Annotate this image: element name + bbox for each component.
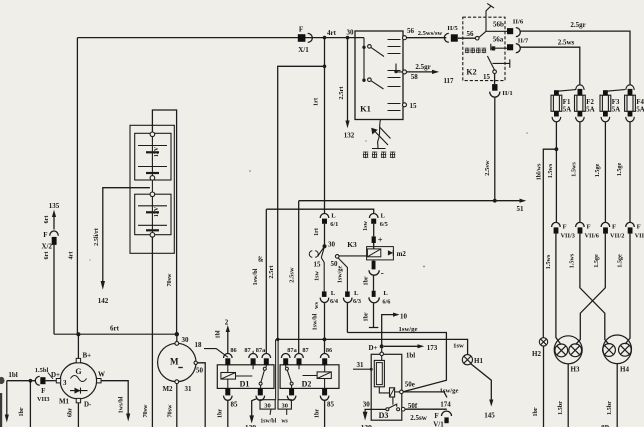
svg-text:D+: D+ <box>368 344 377 352</box>
K2 lower switch arm and 15 <box>487 56 494 70</box>
wire: 1rt drop to L6/1 <box>324 38 326 214</box>
svg-text:87a: 87a <box>287 347 297 354</box>
svg-text:51: 51 <box>517 205 525 213</box>
svg-text:2.5gr: 2.5gr <box>570 21 585 29</box>
connector L6/4 <box>321 258 324 292</box>
svg-text:2.5gr: 2.5gr <box>415 63 430 71</box>
svg-text:15: 15 <box>483 73 491 81</box>
svg-text:1bl/ws: 1bl/ws <box>535 163 542 180</box>
svg-text:W: W <box>98 371 105 379</box>
svg-text:2.5ws: 2.5ws <box>558 39 575 47</box>
generator D- output <box>76 398 80 402</box>
svg-text:X/1: X/1 <box>298 46 309 54</box>
D1 bottom connectors 85 30 <box>225 388 230 395</box>
svg-text:2.5sw: 2.5sw <box>289 267 296 283</box>
svg-text:B+: B+ <box>83 352 92 360</box>
svg-text:31: 31 <box>185 385 193 393</box>
lamp H3 (double) <box>554 336 582 364</box>
svg-text:1.5ws: 1.5ws <box>571 162 578 177</box>
svg-text:132: 132 <box>344 132 355 140</box>
K2 right plate symbol <box>493 59 510 67</box>
battery cell 1 <box>135 133 171 180</box>
svg-text:D3: D3 <box>379 411 389 420</box>
svg-text:L: L <box>381 213 386 220</box>
lamp H4 (double) <box>603 335 632 364</box>
svg-text:1ws/bl: 1ws/bl <box>118 396 125 413</box>
terminal 58 <box>403 70 407 74</box>
svg-text:D1: D1 <box>240 379 250 388</box>
svg-text:VII/6: VII/6 <box>585 233 599 240</box>
K2 dip arm 56 to 56b <box>479 17 507 37</box>
generator diode <box>70 388 88 394</box>
svg-text:5A: 5A <box>586 107 594 114</box>
fuse F3 <box>600 90 625 112</box>
D1 contact <box>253 365 266 388</box>
wire H1 to 145 arrow <box>470 363 491 400</box>
connector F VII/2 <box>601 222 610 227</box>
wire D+ vertical with 10 arrow <box>382 315 394 347</box>
svg-text:F: F <box>41 387 45 395</box>
svg-text:2.5ws/sw: 2.5ws/sw <box>418 30 443 37</box>
connector L6/3 <box>345 291 350 297</box>
D2 coil <box>324 365 326 388</box>
svg-text:70sw: 70sw <box>166 273 173 287</box>
svg-text:VII3: VII3 <box>37 396 50 403</box>
svg-text:70sw: 70sw <box>167 404 174 418</box>
svg-text:139: 139 <box>361 423 373 427</box>
wire 1sw/ge line A to D3 50e <box>347 303 446 392</box>
svg-text:87a: 87a <box>256 347 266 354</box>
svg-text:1sw: 1sw <box>453 343 464 350</box>
svg-text:6/1: 6/1 <box>330 221 338 228</box>
svg-text:V/1: V/1 <box>433 421 444 427</box>
svg-text:K2: K2 <box>466 68 476 77</box>
svg-text:12V: 12V <box>154 206 160 217</box>
svg-text:15: 15 <box>410 102 418 110</box>
svg-text:1.5ge: 1.5ge <box>594 163 601 177</box>
svg-text:F1: F1 <box>563 99 571 106</box>
svg-text:12V: 12V <box>154 146 160 157</box>
svg-text:F: F <box>43 231 47 239</box>
svg-text:F3: F3 <box>612 99 620 106</box>
svg-text:58: 58 <box>411 73 419 81</box>
svg-text:X/2: X/2 <box>42 243 53 251</box>
svg-text:1.5ge: 1.5ge <box>617 254 624 268</box>
svg-text:50e: 50e <box>405 381 415 389</box>
connector F VII/6 <box>576 222 585 227</box>
svg-text:M1: M1 <box>59 398 70 406</box>
svg-text:G: G <box>75 367 81 376</box>
svg-text:F: F <box>637 224 641 231</box>
svg-text:H1: H1 <box>474 357 483 365</box>
svg-text:6rt: 6rt <box>110 325 120 333</box>
relay D1 <box>217 365 274 389</box>
svg-text:1br: 1br <box>532 407 539 417</box>
wire: drop to 132 arrow <box>347 38 349 121</box>
wires down to relay 30 plugs <box>276 339 279 399</box>
svg-text:50: 50 <box>196 367 204 375</box>
svg-text:86: 86 <box>230 347 236 354</box>
svg-text:3: 3 <box>63 379 67 387</box>
battery minus cable down <box>151 237 153 427</box>
D1 30 output arrow 1sw/bl <box>252 399 257 416</box>
svg-text:ge: ge <box>257 256 264 262</box>
svg-text:1.5br: 1.5br <box>606 401 613 415</box>
svg-text:10: 10 <box>400 312 408 320</box>
D3 50e output arrow 174 <box>403 392 447 398</box>
D2 bottom connectors 30 85 <box>289 388 294 395</box>
svg-text:M2: M2 <box>162 385 173 393</box>
svg-text:174: 174 <box>440 401 451 409</box>
svg-text:30: 30 <box>264 402 271 409</box>
svg-text:F2: F2 <box>586 99 594 106</box>
svg-text:1sw/bl: 1sw/bl <box>312 313 319 330</box>
svg-text:30: 30 <box>182 336 190 344</box>
svg-text:1sw/bl: 1sw/bl <box>252 268 259 285</box>
wire K3 to m2 coil <box>339 255 367 257</box>
svg-text:F: F <box>434 412 438 420</box>
arrow to 132 <box>345 121 349 129</box>
svg-text:VII/5: VII/5 <box>635 233 644 240</box>
svg-text:2.5sw: 2.5sw <box>410 414 427 422</box>
wire ge drop to D1 87a <box>265 209 267 354</box>
D1 top connectors 86 87 87a <box>224 354 233 359</box>
svg-text:1.5ws: 1.5ws <box>545 254 552 269</box>
svg-text:6br: 6br <box>67 408 74 418</box>
svg-text:H2: H2 <box>532 350 541 358</box>
svg-text:85: 85 <box>231 401 239 409</box>
svg-text:4rt: 4rt <box>68 251 75 260</box>
wire 2.5gr with arrow to 117 <box>407 71 433 73</box>
svg-text:1sw/bl: 1sw/bl <box>260 418 276 424</box>
svg-text:31: 31 <box>357 361 365 369</box>
svg-text:L: L <box>331 290 336 297</box>
svg-text:F4: F4 <box>636 99 644 106</box>
connector L6/5 <box>369 213 378 218</box>
svg-text:2.5sw: 2.5sw <box>484 160 491 176</box>
svg-text:1sw/ge: 1sw/ge <box>440 387 459 394</box>
wire: main 30 bus <box>77 37 364 39</box>
svg-text:II/1: II/1 <box>502 90 512 97</box>
svg-text:30: 30 <box>347 28 355 36</box>
svg-text:1sw: 1sw <box>362 220 369 231</box>
connector F VII3 <box>40 377 45 384</box>
wire L6/5 to m2 plus <box>373 224 375 249</box>
svg-text:+: + <box>378 235 383 245</box>
svg-text:K3: K3 <box>347 240 357 249</box>
svg-text:L: L <box>331 213 336 220</box>
connector II/5 <box>444 25 458 42</box>
svg-text:50f: 50f <box>408 402 418 410</box>
svg-text:1br: 1br <box>363 276 370 286</box>
K1 switch arms <box>371 47 384 89</box>
svg-text:1.5ge: 1.5ge <box>616 162 623 176</box>
svg-text:1br: 1br <box>362 312 369 322</box>
svg-text:56: 56 <box>467 30 475 38</box>
battery cell 2 <box>135 194 171 235</box>
D1 plug 30 <box>260 400 275 409</box>
K1 internal feed <box>363 38 365 81</box>
svg-text:2: 2 <box>225 319 229 327</box>
connector F V/1 <box>442 411 452 416</box>
switch K2 combination switch (dashed box) <box>463 17 505 80</box>
bus line 2 (to L6/5) <box>266 209 373 214</box>
crossing wires to lamps <box>556 234 630 345</box>
connector L6/1 <box>320 214 329 218</box>
svg-text:1.5ws: 1.5ws <box>569 253 576 268</box>
svg-text:L: L <box>383 290 388 297</box>
svg-text:H3: H3 <box>571 366 580 374</box>
label 灯光开关 <box>363 152 368 159</box>
starter motor M2 <box>176 334 178 343</box>
bus line 51 <box>299 200 520 202</box>
fuse F1 <box>551 90 576 112</box>
svg-text:1rt: 1rt <box>313 97 320 106</box>
light switch symbol below K1 <box>372 120 391 150</box>
D3 switch <box>388 397 397 409</box>
svg-text:II/6: II/6 <box>513 18 524 25</box>
svg-text:6/6: 6/6 <box>382 298 390 305</box>
svg-text:56b: 56b <box>493 20 504 28</box>
K2 label 组合开关 <box>465 48 470 54</box>
svg-text:1.5ws: 1.5ws <box>547 163 554 178</box>
K1 58 stub <box>396 64 403 72</box>
bus 6rt bottom <box>54 333 177 335</box>
generator D+ terminal 3 <box>56 379 60 383</box>
svg-text:1bl: 1bl <box>214 330 221 339</box>
svg-text:F: F <box>563 224 567 231</box>
svg-text:II/5: II/5 <box>447 25 458 32</box>
lamp H2 <box>539 338 547 346</box>
connector F X/1 <box>298 26 313 54</box>
D1 coil <box>227 365 229 388</box>
svg-text:D2: D2 <box>302 379 312 388</box>
svg-text:ws: ws <box>313 301 320 308</box>
wire into K2 <box>458 37 476 39</box>
svg-text:135: 135 <box>49 202 60 210</box>
fuse F4 <box>625 85 636 112</box>
svg-text:1.5bl: 1.5bl <box>35 367 49 374</box>
terminal 56 <box>403 36 407 40</box>
wire: 4rt left drop <box>76 38 78 335</box>
svg-text:6/3: 6/3 <box>353 298 361 305</box>
node: bus junction dots <box>323 36 350 68</box>
svg-text:1rt: 1rt <box>313 227 320 236</box>
switch K3 ignition <box>323 244 327 248</box>
generator G / M1 <box>77 334 79 358</box>
svg-text:142: 142 <box>98 297 109 305</box>
relay D3 (regulator/starter relay) <box>371 354 402 420</box>
D3 50e <box>395 391 400 393</box>
connector II/7 <box>507 44 513 50</box>
svg-text:F: F <box>587 224 591 231</box>
wire 2.5li/rt with 142 arrow <box>103 188 150 282</box>
svg-text:30: 30 <box>328 240 336 248</box>
svg-text:5A: 5A <box>636 107 644 114</box>
svg-text:1bl: 1bl <box>406 352 415 360</box>
svg-text:2.5rt: 2.5rt <box>338 86 345 100</box>
svg-text:1.5br: 1.5br <box>557 401 564 415</box>
svg-text:6rt: 6rt <box>43 215 50 224</box>
D3 50f wire to F V/1 <box>405 408 447 410</box>
svg-text:87: 87 <box>244 347 250 354</box>
D2 plug 30 <box>278 400 291 409</box>
svg-text:1br: 1br <box>217 409 224 419</box>
svg-text:85: 85 <box>327 401 335 409</box>
svg-text:6/4: 6/4 <box>330 298 339 305</box>
connector F VII/5 <box>626 222 635 227</box>
relay D2 <box>280 365 339 389</box>
svg-text:4rt: 4rt <box>327 29 337 37</box>
m2 minus chain to L6/6 <box>373 259 375 262</box>
K2 terminal 56 <box>475 36 479 40</box>
svg-text:1br: 1br <box>313 409 320 419</box>
fuse F2 <box>575 85 586 111</box>
svg-text:117: 117 <box>443 77 454 85</box>
connector F VII/3 <box>552 222 561 227</box>
svg-text:30: 30 <box>281 402 288 409</box>
wire K1 56 to II/5 <box>407 37 447 39</box>
svg-text:M: M <box>170 357 179 367</box>
connector II/1 <box>494 74 496 85</box>
relay m2 <box>367 247 394 260</box>
svg-text:56a: 56a <box>493 35 504 43</box>
wire 2.5sw drop to D2 87 <box>298 201 300 354</box>
scan smudge left edge <box>0 393 2 427</box>
wire K3 50 to L6/3 <box>338 258 347 291</box>
M2 terminal 50 <box>194 361 197 364</box>
connector II/6 <box>507 28 513 34</box>
svg-text:15: 15 <box>314 261 322 269</box>
wire 2.5sw down from II/1 <box>494 98 496 201</box>
generator W output <box>97 379 101 383</box>
D3 coil <box>379 387 389 393</box>
svg-text:1sw/ge: 1sw/ge <box>399 326 418 333</box>
svg-text:1br: 1br <box>18 407 25 417</box>
svg-text:F: F <box>612 224 616 231</box>
svg-text:VII/2: VII/2 <box>610 233 624 240</box>
node D+ with 173 arrow <box>380 344 384 348</box>
svg-text:-: - <box>381 268 384 278</box>
svg-text:m2: m2 <box>397 250 407 258</box>
svg-text:1sw/ge: 1sw/ge <box>336 265 343 283</box>
scan specks <box>249 170 251 172</box>
D2 contact <box>286 365 299 388</box>
wire 2.5gr to F4 <box>520 31 630 85</box>
battery plus loop to starter <box>152 110 176 334</box>
svg-text:II/7: II/7 <box>518 38 529 45</box>
K1 contact plates <box>388 40 401 111</box>
svg-text:5A: 5A <box>563 107 571 114</box>
svg-text:2.5rt: 2.5rt <box>268 265 275 279</box>
svg-text:6/5: 6/5 <box>380 221 388 228</box>
svg-text:2.5li/rt: 2.5li/rt <box>93 227 100 246</box>
svg-text:1.5ge: 1.5ge <box>593 254 600 268</box>
battery terminals <box>151 180 153 192</box>
lamp H1 <box>462 355 472 365</box>
arrow 2 (1bl) to D1 86 <box>227 331 229 354</box>
svg-text:145: 145 <box>484 412 495 420</box>
diode of m2 <box>388 250 393 255</box>
svg-text:5A: 5A <box>612 107 620 114</box>
svg-text:L: L <box>354 290 359 297</box>
D3 30 wire to 139 <box>365 409 386 412</box>
svg-text:70sw: 70sw <box>142 404 149 418</box>
wire 2.5ws to F2 <box>520 47 579 85</box>
svg-text:K1: K1 <box>360 104 371 114</box>
relay K1 light switch box <box>355 31 403 120</box>
branch 1bl/ws to H2 <box>543 149 556 338</box>
D2 top connectors 87a 87 86 <box>281 354 290 359</box>
svg-text:87: 87 <box>302 347 308 354</box>
svg-text:1sw: 1sw <box>313 270 320 281</box>
svg-text:6rt: 6rt <box>43 251 50 260</box>
terminal 15 <box>403 103 407 107</box>
svg-text:139: 139 <box>245 423 257 427</box>
K2 top lever symbol <box>486 3 494 17</box>
wire: 2.5rt middle column branch <box>278 66 325 339</box>
svg-text:30: 30 <box>363 401 371 409</box>
wire D+ to left edge <box>7 380 36 382</box>
svg-text:1bl: 1bl <box>8 371 17 379</box>
svg-text:ws: ws <box>281 418 288 424</box>
wires below fuses <box>543 122 630 338</box>
svg-text:86: 86 <box>326 347 332 354</box>
svg-text:18: 18 <box>195 341 203 349</box>
svg-text:VII/3: VII/3 <box>561 233 575 240</box>
svg-text:D-: D- <box>84 401 92 409</box>
svg-text:173: 173 <box>427 344 438 352</box>
svg-text:F: F <box>299 26 303 34</box>
svg-text:H4: H4 <box>620 366 629 374</box>
wire line B (1sw) to H1 <box>278 339 468 354</box>
D3 terminal 31 <box>353 368 371 370</box>
svg-text:56: 56 <box>407 27 415 35</box>
battery pack outer box <box>130 125 174 253</box>
